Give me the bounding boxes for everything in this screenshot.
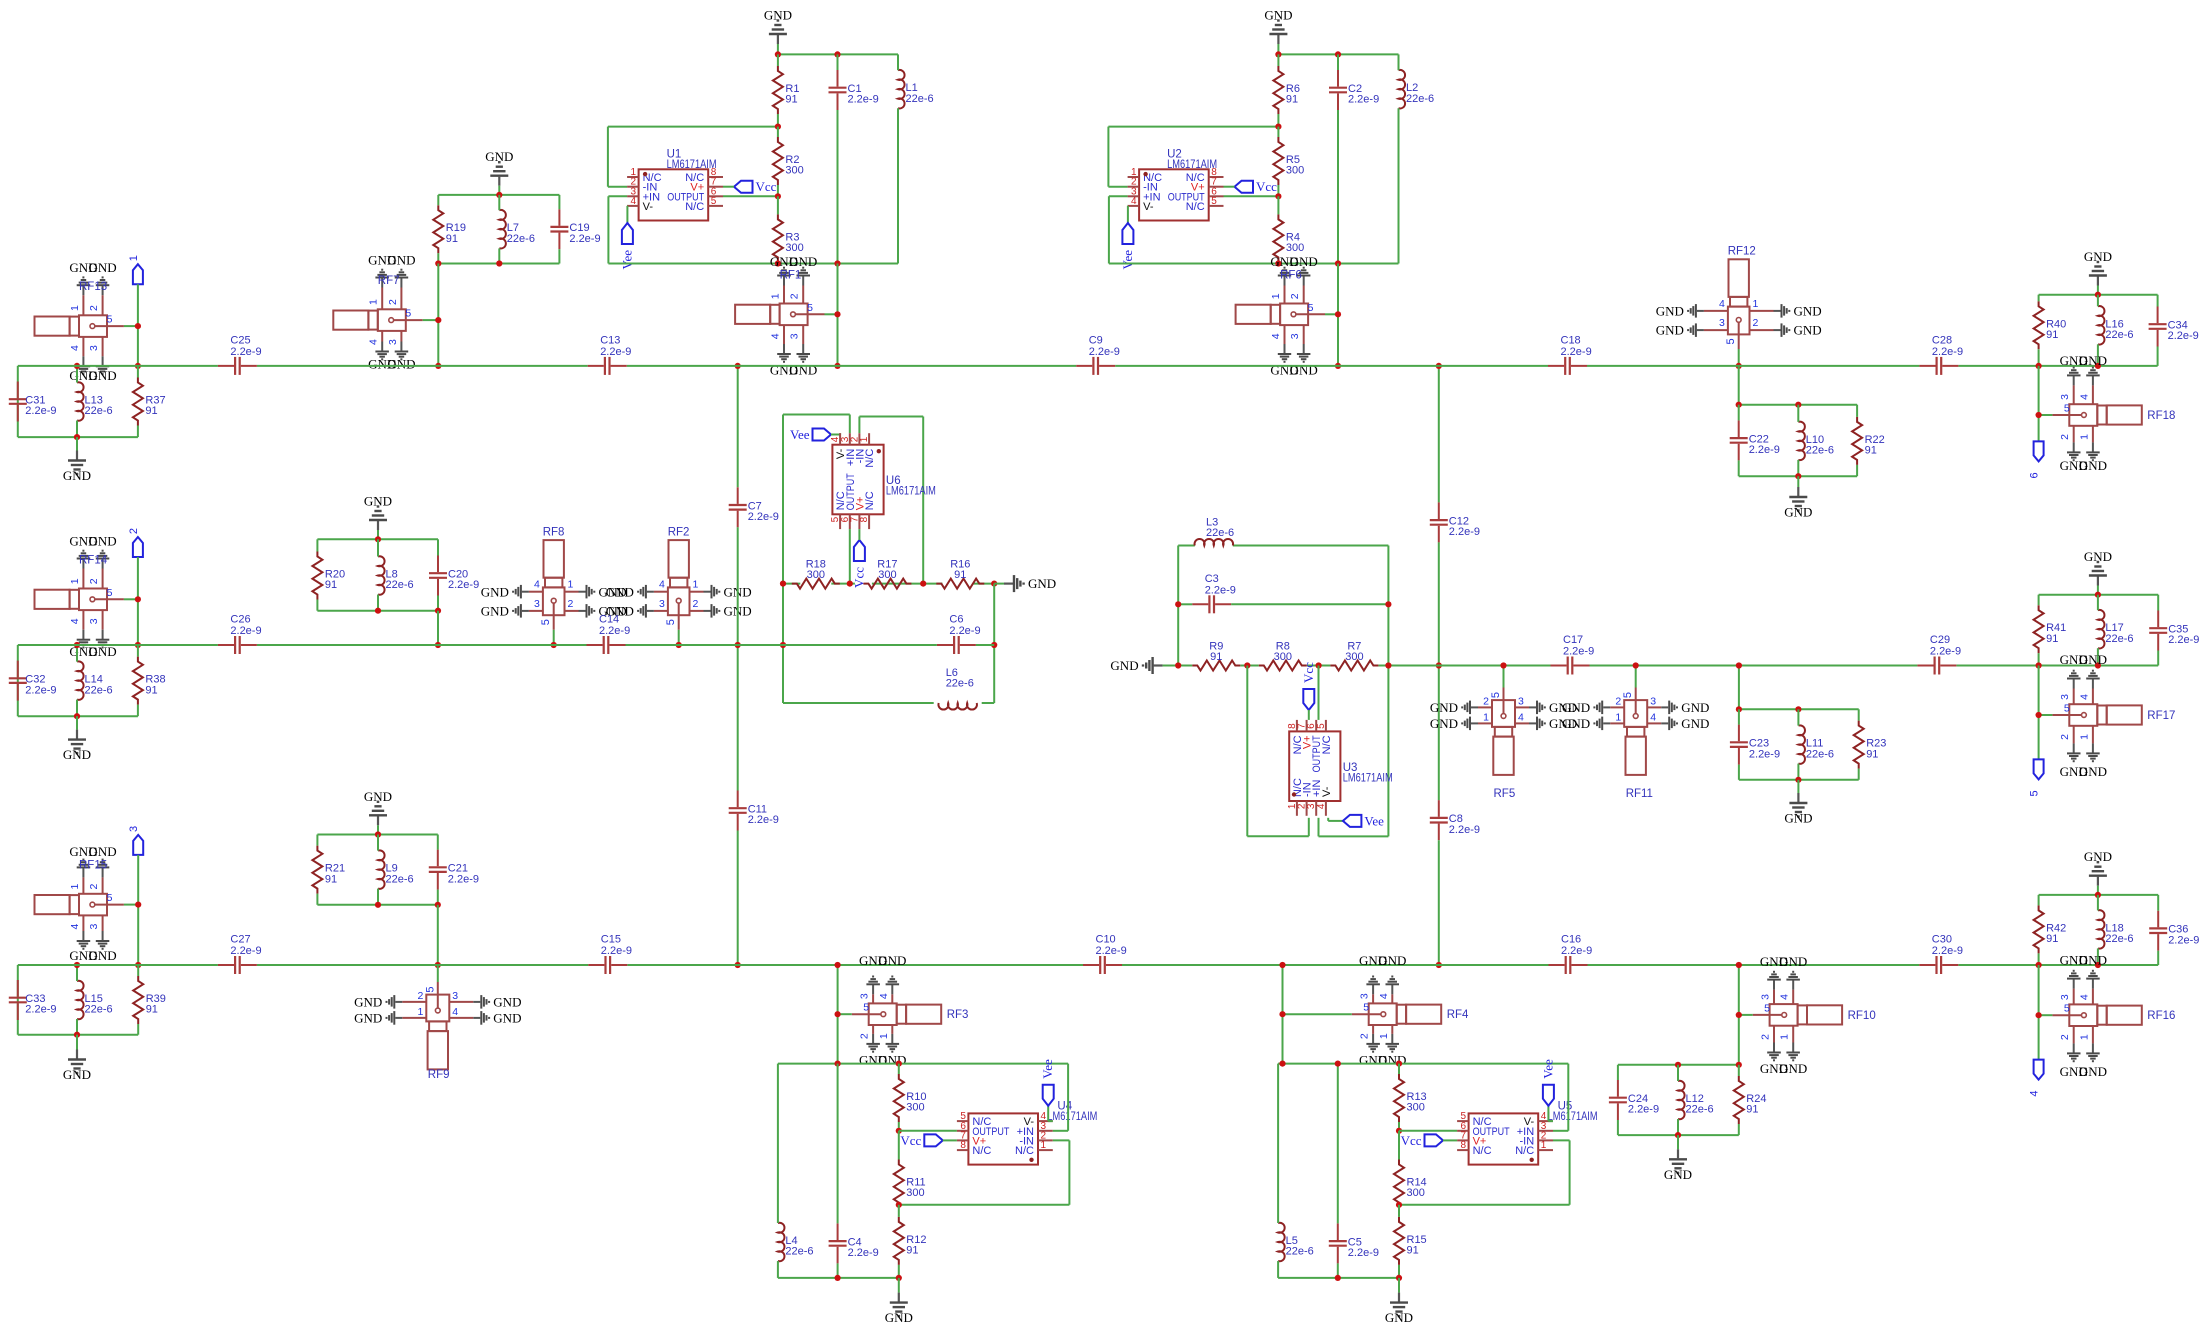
svg-text:1: 1 xyxy=(770,293,782,299)
svg-text:C10: C10 xyxy=(1096,934,1116,946)
ground xyxy=(364,789,392,826)
svg-text:2.2e-9: 2.2e-9 xyxy=(25,405,56,417)
svg-text:4: 4 xyxy=(69,924,81,930)
svg-text:1: 1 xyxy=(128,255,140,261)
wire xyxy=(837,110,839,264)
wire xyxy=(1677,1119,1679,1135)
wire xyxy=(737,645,739,791)
svg-text:2.2e-9: 2.2e-9 xyxy=(600,346,631,358)
capacitor C7 xyxy=(729,487,779,527)
svg-text:3: 3 xyxy=(1760,994,1772,1000)
svg-text:5: 5 xyxy=(2029,790,2041,796)
svg-text:GND: GND xyxy=(1110,658,1138,673)
svg-text:2: 2 xyxy=(88,578,100,584)
svg-text:LM6171AIM: LM6171AIM xyxy=(886,486,936,498)
ground xyxy=(2084,249,2112,286)
svg-text:91: 91 xyxy=(446,233,458,245)
wire xyxy=(1398,108,1400,263)
svg-text:22e-6: 22e-6 xyxy=(85,1004,113,1016)
wire lower rail xyxy=(608,263,898,265)
svg-text:Vee: Vee xyxy=(1540,1059,1555,1079)
junction xyxy=(1436,962,1442,968)
svg-text:GND: GND xyxy=(1430,716,1458,731)
wire xyxy=(2097,586,2099,595)
svg-text:2.2e-9: 2.2e-9 xyxy=(1749,748,1780,760)
capacitor C36 xyxy=(2149,911,2199,951)
svg-text:5: 5 xyxy=(2064,403,2070,415)
wire xyxy=(2039,294,2158,296)
svg-text:4: 4 xyxy=(2078,994,2090,1000)
svg-text:22e-6: 22e-6 xyxy=(785,1246,813,1258)
svg-text:4: 4 xyxy=(452,1006,458,1018)
svg-text:LM6171AIM: LM6171AIM xyxy=(1343,772,1393,784)
svg-text:2: 2 xyxy=(693,598,699,610)
svg-text:RF13: RF13 xyxy=(79,281,107,293)
svg-text:91: 91 xyxy=(785,94,797,106)
op-amp U5 xyxy=(1457,1100,1598,1164)
svg-text:2.2e-9: 2.2e-9 xyxy=(1449,526,1480,538)
wire xyxy=(1398,54,1400,70)
resistor R23 xyxy=(1854,721,1887,769)
resistor R10 xyxy=(894,1074,927,1122)
svg-text:3: 3 xyxy=(1289,333,1301,339)
svg-text:5: 5 xyxy=(1316,723,1327,729)
svg-text:GND: GND xyxy=(789,254,817,269)
op-amp U3 xyxy=(1287,720,1393,816)
svg-text:3: 3 xyxy=(789,333,801,339)
junction xyxy=(375,536,381,542)
svg-text:GND: GND xyxy=(89,844,117,859)
svg-text:RF1: RF1 xyxy=(780,269,802,281)
wire xyxy=(437,253,439,263)
resistor R12 xyxy=(894,1217,927,1265)
wire xyxy=(1738,765,1740,780)
wire bus1 xyxy=(1115,365,1548,367)
wire top rail xyxy=(778,1063,1068,1065)
junction xyxy=(834,260,840,266)
wire output xyxy=(1224,195,1279,197)
wire bus2r xyxy=(1590,665,1918,667)
svg-text:3: 3 xyxy=(1518,695,1524,707)
wire xyxy=(1398,1122,1400,1131)
wire feedback xyxy=(608,126,778,128)
svg-text:8: 8 xyxy=(859,516,870,522)
wire bus2 xyxy=(18,644,218,646)
wire -IN loop xyxy=(1399,1140,1570,1204)
svg-text:GND: GND xyxy=(885,1310,913,1325)
wire bottom rail xyxy=(1278,1277,1399,1279)
inductor L4 xyxy=(778,1223,814,1262)
resistor R8 xyxy=(1259,641,1307,671)
svg-text:5: 5 xyxy=(807,302,813,314)
svg-text:5: 5 xyxy=(1622,692,1634,698)
svg-text:4: 4 xyxy=(2029,1091,2041,1097)
wire -IN loop xyxy=(899,1140,1070,1204)
wire +IN xyxy=(1053,1064,1068,1131)
junction xyxy=(896,1061,902,1067)
svg-text:1: 1 xyxy=(1270,293,1282,299)
svg-text:3: 3 xyxy=(88,924,100,930)
wire bus1 xyxy=(627,365,1076,367)
svg-text:N/C: N/C xyxy=(1473,1145,1492,1157)
wire xyxy=(1398,1064,1400,1074)
wire bus2 xyxy=(976,644,994,646)
resistor R24 xyxy=(1734,1076,1767,1124)
wire xyxy=(1178,545,1388,547)
junction xyxy=(1795,473,1801,479)
wire xyxy=(2157,295,2159,307)
capacitor C4 xyxy=(829,1223,879,1263)
junction xyxy=(435,608,441,614)
svg-text:LM6171AIM: LM6171AIM xyxy=(1047,1111,1097,1123)
ground xyxy=(764,8,792,45)
wire xyxy=(994,583,1004,585)
capacitor C14 xyxy=(587,614,631,655)
port 3 xyxy=(128,826,143,855)
wire xyxy=(137,366,139,378)
wire xyxy=(831,433,840,434)
junction xyxy=(2036,1012,2042,1018)
capacitor C25 xyxy=(218,334,262,375)
svg-text:2.2e-9: 2.2e-9 xyxy=(230,945,261,957)
resistor R11 xyxy=(894,1160,926,1208)
wire xyxy=(1277,114,1279,127)
svg-text:2.2e-9: 2.2e-9 xyxy=(1348,1247,1379,1259)
svg-text:RF16: RF16 xyxy=(2147,1010,2175,1022)
wire V- xyxy=(1548,1106,1553,1121)
svg-text:3: 3 xyxy=(534,598,540,610)
wire V- xyxy=(1127,206,1129,223)
capacitor C5 xyxy=(1329,1223,1379,1263)
wire bus1 xyxy=(1958,365,2157,367)
wire bus2 xyxy=(626,644,937,646)
junction xyxy=(435,642,441,648)
wire xyxy=(437,835,439,850)
svg-text:22e-6: 22e-6 xyxy=(1286,1246,1314,1258)
wire xyxy=(2157,651,2159,666)
capacitor C24 xyxy=(1609,1080,1659,1120)
wire top rail xyxy=(1278,53,1398,55)
svg-text:1: 1 xyxy=(2078,434,2090,440)
resistor R37 xyxy=(133,378,166,426)
svg-text:300: 300 xyxy=(1407,1102,1425,1114)
junction xyxy=(775,124,781,130)
svg-text:Vee: Vee xyxy=(619,250,634,270)
svg-text:GND: GND xyxy=(1794,304,1822,319)
wire xyxy=(317,834,437,836)
svg-text:2.2e-9: 2.2e-9 xyxy=(848,1247,879,1259)
wire xyxy=(437,596,439,611)
wire xyxy=(1738,405,1740,421)
svg-text:91: 91 xyxy=(1210,651,1222,663)
inductor L18 xyxy=(2098,910,2134,949)
capacitor C6 xyxy=(937,614,981,655)
inductor L17 xyxy=(2098,610,2134,649)
svg-text:2.2e-9: 2.2e-9 xyxy=(1561,945,1592,957)
resistor R1 xyxy=(773,66,800,114)
ground xyxy=(1004,575,1056,592)
wire xyxy=(316,600,318,611)
wire xyxy=(993,584,995,703)
wire xyxy=(1337,1263,1339,1278)
wire xyxy=(437,611,439,645)
svg-text:2: 2 xyxy=(2059,434,2071,440)
capacitor C9 xyxy=(1076,334,1120,375)
svg-text:2: 2 xyxy=(1483,695,1489,707)
svg-text:GND: GND xyxy=(63,747,91,762)
junction xyxy=(1396,1202,1402,1208)
wire xyxy=(2157,895,2159,911)
wire xyxy=(316,835,318,846)
wire xyxy=(1277,54,1279,66)
svg-text:2.2e-9: 2.2e-9 xyxy=(230,346,261,358)
resistor R14 xyxy=(1394,1160,1427,1208)
svg-text:22e-6: 22e-6 xyxy=(386,873,414,885)
junction xyxy=(1736,402,1742,408)
svg-text:2.2e-9: 2.2e-9 xyxy=(1932,945,1963,957)
wire xyxy=(837,965,839,1064)
wire xyxy=(2097,948,2099,965)
RF connector RF5 xyxy=(1430,666,1577,800)
wire xyxy=(1738,666,1740,710)
wire xyxy=(2157,347,2159,366)
svg-text:5: 5 xyxy=(1490,692,1502,698)
wire xyxy=(837,1064,839,1224)
svg-text:4: 4 xyxy=(878,993,890,999)
svg-text:1: 1 xyxy=(69,305,81,311)
wire trio bottom rail xyxy=(438,263,559,265)
wire xyxy=(2097,595,2099,611)
port 1 xyxy=(128,255,143,284)
junction xyxy=(1736,363,1742,369)
wire xyxy=(377,835,379,851)
svg-text:RF18: RF18 xyxy=(2147,410,2175,422)
svg-text:RF7: RF7 xyxy=(378,275,400,287)
wire L6 rail xyxy=(783,702,994,704)
wire xyxy=(1387,546,1389,837)
wire xyxy=(1277,1064,1279,1223)
junction xyxy=(1279,962,1285,968)
svg-text:C26: C26 xyxy=(230,614,250,626)
junction xyxy=(1436,662,1442,668)
ground xyxy=(63,451,91,484)
svg-text:GND: GND xyxy=(1779,1061,1807,1076)
svg-text:91: 91 xyxy=(145,684,157,696)
svg-text:1: 1 xyxy=(878,1033,890,1039)
svg-text:GND: GND xyxy=(354,1011,382,1026)
svg-text:C9: C9 xyxy=(1089,334,1103,346)
op-amp U4 xyxy=(957,1100,1098,1164)
junction xyxy=(1736,662,1742,668)
svg-text:2: 2 xyxy=(1760,1034,1772,1040)
wire feedback xyxy=(1108,126,1278,128)
svg-text:4: 4 xyxy=(1270,333,1282,339)
wire bus3 xyxy=(627,964,1083,966)
wire xyxy=(1398,1205,1400,1208)
wire +IN loop xyxy=(1319,818,1389,837)
junction xyxy=(1244,662,1250,668)
capacitor C26 xyxy=(218,614,262,655)
wire xyxy=(2038,595,2040,606)
junction xyxy=(1279,1061,1285,1067)
resistor R13 xyxy=(1394,1074,1427,1122)
resistor R9 xyxy=(1192,641,1240,671)
svg-text:RF12: RF12 xyxy=(1728,246,1756,258)
wire xyxy=(737,527,739,645)
wire xyxy=(837,54,839,70)
svg-text:2.2e-9: 2.2e-9 xyxy=(448,873,479,885)
port 5 xyxy=(2029,759,2044,796)
wire +IN xyxy=(1553,1064,1568,1131)
svg-text:2: 2 xyxy=(1289,293,1301,299)
svg-text:GND: GND xyxy=(1385,1310,1413,1325)
svg-text:4: 4 xyxy=(631,196,637,207)
wire bus2r xyxy=(1163,665,1193,667)
inductor L3 xyxy=(1195,516,1235,545)
inductor L14 xyxy=(77,661,113,700)
junction xyxy=(1175,601,1181,607)
inductor L9 xyxy=(378,850,414,888)
junction xyxy=(1275,260,1281,266)
svg-text:2: 2 xyxy=(1615,695,1621,707)
wire xyxy=(1856,405,1858,417)
capacitor C20 xyxy=(429,556,479,596)
wire xyxy=(1277,127,1279,137)
junction xyxy=(1396,1275,1402,1281)
junction xyxy=(780,581,786,587)
svg-text:LM6171AIM: LM6171AIM xyxy=(1167,159,1217,171)
junction xyxy=(896,1275,902,1281)
svg-text:2.2e-9: 2.2e-9 xyxy=(599,625,630,637)
svg-text:2.2e-9: 2.2e-9 xyxy=(2168,330,2199,342)
ground xyxy=(1110,657,1162,674)
capacitor C27 xyxy=(218,934,262,975)
svg-text:22e-6: 22e-6 xyxy=(386,579,414,591)
junction xyxy=(435,962,441,968)
wire xyxy=(137,965,139,976)
junction xyxy=(1275,124,1281,130)
resistor R22 xyxy=(1852,417,1885,465)
svg-text:91: 91 xyxy=(906,1245,918,1257)
svg-text:N/C: N/C xyxy=(1321,735,1333,754)
capacitor C19 xyxy=(550,209,600,249)
svg-text:GND: GND xyxy=(493,995,521,1010)
junction xyxy=(1396,1061,1402,1067)
power flag Vcc xyxy=(851,540,866,588)
power flag Vcc xyxy=(1401,1133,1443,1148)
svg-text:4: 4 xyxy=(659,579,665,591)
svg-text:300: 300 xyxy=(785,242,803,254)
svg-text:GND: GND xyxy=(2079,953,2107,968)
wire xyxy=(1277,196,1279,214)
RF connector RF12 xyxy=(1656,246,1822,366)
svg-text:GND: GND xyxy=(481,604,509,619)
wire xyxy=(777,262,779,263)
capacitor C12 xyxy=(1430,502,1480,542)
wire xyxy=(17,645,19,716)
wire bus3 xyxy=(257,964,588,966)
wire xyxy=(2097,295,2099,307)
svg-text:22e-6: 22e-6 xyxy=(1806,445,1834,457)
junction xyxy=(2095,292,2101,298)
svg-text:Vcc: Vcc xyxy=(851,567,866,588)
resistor R15 xyxy=(1394,1217,1427,1265)
junction xyxy=(496,260,502,266)
inductor L5 xyxy=(1278,1223,1314,1262)
wire xyxy=(898,1205,900,1208)
junction xyxy=(1175,662,1181,668)
junction xyxy=(835,1011,841,1017)
junction xyxy=(135,642,141,648)
wire xyxy=(608,186,627,188)
svg-text:N/C: N/C xyxy=(864,491,876,510)
junction xyxy=(2095,962,2101,968)
svg-text:22e-6: 22e-6 xyxy=(2105,633,2133,645)
wire xyxy=(1739,404,1857,406)
inductor L7 xyxy=(499,210,535,249)
svg-text:5: 5 xyxy=(1764,1002,1770,1014)
junction xyxy=(1279,1011,1285,1017)
svg-text:22e-6: 22e-6 xyxy=(2105,933,2133,945)
resistor R20 xyxy=(312,552,345,600)
wire xyxy=(76,437,78,450)
junction xyxy=(135,363,141,369)
wire xyxy=(76,716,78,729)
svg-text:RF9: RF9 xyxy=(428,1069,450,1081)
inductor L8 xyxy=(378,556,414,594)
wire xyxy=(377,889,379,905)
wire xyxy=(2038,366,2040,442)
wire xyxy=(2097,648,2099,665)
port 6 xyxy=(2029,441,2044,478)
junction xyxy=(135,902,141,908)
svg-text:2: 2 xyxy=(2059,734,2071,740)
wire xyxy=(437,195,439,205)
op-amp U2 xyxy=(1128,149,1224,221)
svg-text:8: 8 xyxy=(960,1140,966,1151)
svg-text:22e-6: 22e-6 xyxy=(85,405,113,417)
junction xyxy=(1675,1132,1681,1138)
svg-text:1: 1 xyxy=(417,1006,423,1018)
wire xyxy=(377,595,379,611)
svg-text:Vee: Vee xyxy=(1364,813,1384,828)
wire xyxy=(76,700,78,717)
svg-text:300: 300 xyxy=(1286,165,1304,177)
junction xyxy=(2036,363,2042,369)
junction xyxy=(1396,1128,1402,1134)
wire xyxy=(2097,344,2099,366)
junction xyxy=(2095,662,2101,668)
wire xyxy=(137,855,139,965)
ground xyxy=(485,149,513,186)
junction xyxy=(135,323,141,329)
svg-text:GND: GND xyxy=(89,260,117,275)
junction xyxy=(1736,706,1742,712)
svg-text:N/C: N/C xyxy=(972,1145,991,1157)
svg-text:300: 300 xyxy=(1345,651,1363,663)
svg-text:1: 1 xyxy=(368,299,380,305)
wire xyxy=(737,366,739,487)
wire xyxy=(1738,1065,1740,1076)
svg-text:2.2e-9: 2.2e-9 xyxy=(2168,634,2199,646)
wire xyxy=(18,436,138,438)
svg-text:2: 2 xyxy=(128,528,140,534)
capacitor C1 xyxy=(829,70,879,110)
svg-text:2: 2 xyxy=(568,598,574,610)
capacitor C29 xyxy=(1917,634,1961,675)
wire xyxy=(1318,666,1320,720)
junction xyxy=(74,962,80,968)
